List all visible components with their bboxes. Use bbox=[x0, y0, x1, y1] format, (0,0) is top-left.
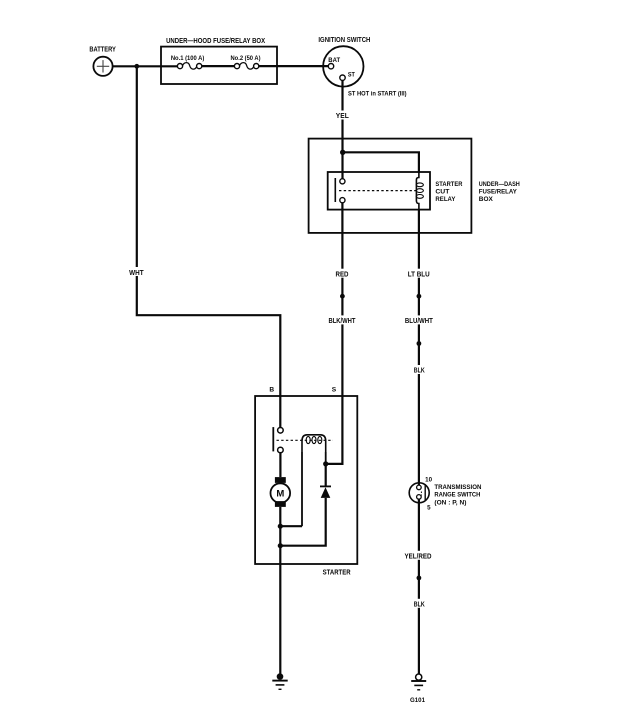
junction battery feed bbox=[134, 64, 139, 69]
svg-text:ST HOT in START (III): ST HOT in START (III) bbox=[348, 90, 407, 97]
svg-text:YEL: YEL bbox=[336, 113, 350, 120]
wire YEL ignition ST to relay contact bbox=[334, 80, 351, 178]
svg-text:TRANSMISSION: TRANSMISSION bbox=[434, 484, 481, 491]
connector on LT BLU wire bbox=[417, 294, 422, 299]
svg-text:ST: ST bbox=[348, 71, 355, 78]
wire contact to motor bbox=[279, 453, 281, 477]
under-dash fuse/relay box bbox=[309, 139, 520, 233]
svg-text:B: B bbox=[269, 386, 274, 393]
svg-text:RANGE SWITCH: RANGE SWITCH bbox=[434, 492, 480, 499]
svg-text:UNDER—DASH: UNDER—DASH bbox=[479, 181, 520, 188]
junction under-dash feed bbox=[340, 150, 345, 155]
svg-text:BLK: BLK bbox=[414, 601, 425, 608]
under-hood fuse/relay box bbox=[161, 38, 277, 84]
svg-text:No.1 (100 A): No.1 (100 A) bbox=[171, 55, 205, 62]
svg-text:10: 10 bbox=[425, 476, 432, 483]
starter motor M bbox=[271, 477, 291, 507]
junction motor/diode return bbox=[278, 543, 283, 548]
wire diode to lower junction bbox=[280, 498, 325, 546]
svg-text:RELAY: RELAY bbox=[435, 196, 456, 203]
starter cut relay bbox=[328, 172, 463, 210]
svg-text:BLK: BLK bbox=[414, 368, 425, 375]
svg-text:5: 5 bbox=[427, 505, 431, 512]
svg-text:UNDER—HOOD FUSE/RELAY BOX: UNDER—HOOD FUSE/RELAY BOX bbox=[166, 38, 265, 45]
fuse No.1 (100 A) bbox=[171, 55, 205, 69]
svg-text:M: M bbox=[276, 489, 284, 500]
junction motor/coil return bbox=[278, 524, 283, 529]
diode bbox=[320, 486, 331, 498]
svg-text:IGNITION SWITCH: IGNITION SWITCH bbox=[318, 37, 370, 44]
svg-text:BAT: BAT bbox=[328, 57, 340, 64]
svg-text:RED: RED bbox=[336, 272, 349, 279]
starter box bbox=[255, 396, 357, 577]
transmission range switch bbox=[409, 476, 481, 511]
battery bbox=[89, 46, 116, 76]
svg-text:STARTER: STARTER bbox=[323, 570, 351, 577]
wire junction to diode bbox=[325, 464, 327, 487]
wire WHT battery to starter B bbox=[128, 66, 280, 427]
svg-text:FUSE/RELAY: FUSE/RELAY bbox=[479, 189, 518, 196]
starter contact bbox=[273, 427, 333, 453]
connector on S wire bbox=[340, 294, 345, 299]
svg-text:S: S bbox=[332, 386, 337, 393]
wire battery to fuse No.1 bbox=[113, 65, 178, 67]
wire motor to ground trunk bbox=[279, 507, 281, 674]
svg-text:STARTER: STARTER bbox=[435, 181, 462, 188]
svg-text:BLK/WHT: BLK/WHT bbox=[329, 318, 357, 325]
wire YEL/RED / BLK switch to ground bbox=[404, 499, 433, 674]
svg-text:CUT: CUT bbox=[435, 189, 449, 196]
connector on YEL/RED wire bbox=[417, 576, 422, 581]
wire fuse No.2 to ignition switch BAT bbox=[259, 65, 329, 67]
svg-text:LT BLU: LT BLU bbox=[408, 272, 430, 279]
ground starter bbox=[272, 673, 287, 689]
fuse No.2 (50 A) bbox=[231, 55, 261, 69]
svg-text:G101: G101 bbox=[410, 697, 425, 704]
wire coil right to S junction bbox=[325, 452, 327, 464]
starter solenoid coil bbox=[302, 435, 326, 452]
svg-text:No.2 (50 A): No.2 (50 A) bbox=[231, 55, 261, 62]
svg-text:BOX: BOX bbox=[479, 196, 494, 203]
wire junction to relay coil bbox=[343, 152, 419, 173]
ignition switch bbox=[318, 37, 370, 87]
wire RED / BLK-WHT relay to starter S bbox=[328, 203, 357, 464]
svg-text:YEL/RED: YEL/RED bbox=[405, 554, 432, 561]
wire junction to coil left bbox=[280, 525, 302, 527]
wire LT BLU / BLU-WHT / BLK relay coil to transmission switch bbox=[404, 210, 434, 486]
svg-text:(ON : P, N): (ON : P, N) bbox=[434, 499, 466, 506]
ground G101 bbox=[410, 674, 426, 704]
wire coil left to lower junction bbox=[301, 452, 303, 526]
svg-text:BLU/WHT: BLU/WHT bbox=[405, 318, 434, 325]
junction S / diode node bbox=[323, 461, 328, 466]
connector on BLU/WHT wire bbox=[417, 341, 422, 346]
wire between fuses bbox=[202, 65, 235, 67]
svg-text:BATTERY: BATTERY bbox=[89, 46, 116, 53]
svg-text:WHT: WHT bbox=[129, 270, 144, 277]
